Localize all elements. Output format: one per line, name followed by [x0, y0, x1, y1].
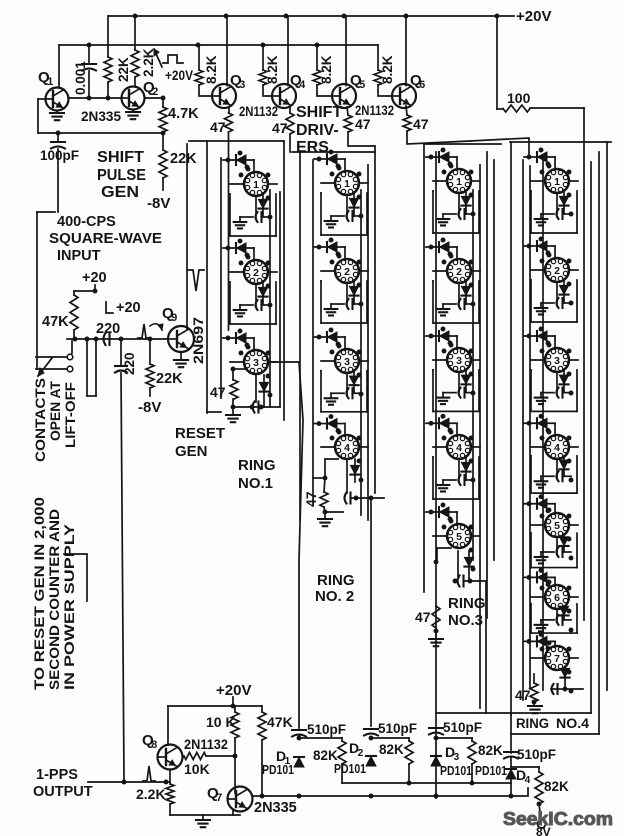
- svg-text:RESET: RESET: [175, 425, 225, 442]
- svg-text:7: 7: [554, 653, 560, 665]
- svg-text:PD101: PD101: [262, 763, 294, 777]
- svg-text:10 K: 10 K: [206, 714, 236, 730]
- svg-text:22K: 22K: [170, 151, 197, 167]
- svg-text:3: 3: [344, 356, 350, 368]
- svg-text:3: 3: [456, 355, 462, 367]
- svg-text:2N1132: 2N1132: [355, 103, 394, 118]
- svg-text:1: 1: [344, 178, 350, 190]
- svg-text:4: 4: [554, 442, 560, 454]
- svg-text:5: 5: [554, 520, 560, 532]
- svg-text:+20: +20: [116, 300, 141, 316]
- svg-text:2: 2: [456, 266, 462, 278]
- svg-text:47: 47: [210, 384, 226, 400]
- svg-text:2N1132: 2N1132: [184, 737, 228, 752]
- svg-text:47: 47: [272, 120, 288, 136]
- svg-text:82K: 82K: [313, 748, 338, 763]
- svg-text:NO. 2: NO. 2: [315, 588, 354, 605]
- svg-text:8: 8: [151, 739, 157, 751]
- svg-text:TO RESET GEN IN 2,000: TO RESET GEN IN 2,000: [31, 497, 47, 690]
- svg-text:3: 3: [253, 357, 259, 369]
- svg-text:1: 1: [554, 176, 560, 188]
- svg-text:INPUT: INPUT: [57, 248, 101, 264]
- svg-text:510pF: 510pF: [307, 722, 346, 737]
- svg-text:22K: 22K: [156, 371, 183, 387]
- svg-text:82K: 82K: [478, 743, 503, 758]
- svg-text:-8V: -8V: [147, 195, 170, 212]
- svg-text:4: 4: [344, 442, 350, 454]
- svg-text:GEN: GEN: [101, 184, 139, 201]
- svg-text:+20: +20: [82, 270, 107, 286]
- svg-text:220: 220: [96, 321, 120, 337]
- svg-text:3: 3: [554, 355, 560, 367]
- svg-text:82K: 82K: [379, 742, 404, 757]
- svg-text:5: 5: [456, 531, 462, 543]
- svg-text:10K: 10K: [184, 761, 210, 777]
- svg-text:1: 1: [253, 179, 259, 191]
- svg-text:400-CPS: 400-CPS: [57, 214, 116, 230]
- svg-text:NO.4: NO.4: [556, 716, 590, 731]
- svg-text:3: 3: [239, 79, 245, 91]
- svg-text:47: 47: [413, 116, 429, 132]
- svg-text:GEN: GEN: [175, 443, 208, 460]
- svg-text:510pF: 510pF: [517, 747, 556, 762]
- svg-text:6: 6: [419, 79, 425, 91]
- svg-text:4: 4: [456, 442, 462, 454]
- svg-text:9: 9: [171, 312, 177, 324]
- svg-text:PD101: PD101: [440, 764, 472, 778]
- svg-text:2: 2: [253, 267, 259, 279]
- svg-text:SQUARE-WAVE: SQUARE-WAVE: [49, 231, 162, 247]
- svg-text:2: 2: [152, 86, 158, 98]
- svg-text:1-PPS: 1-PPS: [36, 767, 78, 783]
- svg-text:510pF: 510pF: [378, 721, 417, 736]
- svg-text:SeekIC.com: SeekIC.com: [503, 808, 613, 829]
- svg-text:47: 47: [303, 491, 319, 507]
- svg-text:47: 47: [515, 687, 531, 703]
- svg-text:2N335: 2N335: [81, 108, 121, 124]
- svg-text:ERS: ERS: [296, 139, 329, 156]
- svg-text:2: 2: [344, 266, 350, 278]
- svg-text:NO.3: NO.3: [448, 612, 483, 629]
- svg-text:PULSE: PULSE: [97, 167, 146, 184]
- svg-text:PD101: PD101: [475, 764, 507, 778]
- svg-text:47K: 47K: [267, 714, 293, 730]
- svg-text:RING: RING: [516, 716, 549, 731]
- svg-text:2N1132: 2N1132: [239, 104, 278, 119]
- svg-text:-8V: -8V: [138, 399, 161, 416]
- svg-text:7: 7: [216, 792, 222, 804]
- svg-text:1: 1: [456, 176, 462, 188]
- svg-text:4: 4: [299, 79, 305, 91]
- svg-text:8.2K: 8.2K: [319, 55, 334, 84]
- svg-text:82K: 82K: [544, 779, 569, 794]
- svg-text:+20V: +20V: [165, 68, 193, 83]
- svg-text:6: 6: [554, 592, 560, 604]
- svg-text:0.001: 0.001: [73, 61, 88, 95]
- svg-text:2: 2: [554, 265, 560, 277]
- svg-text:47: 47: [210, 119, 226, 135]
- svg-text:47: 47: [355, 116, 371, 132]
- svg-text:CONTACTS: CONTACTS: [33, 378, 48, 462]
- svg-text:47: 47: [415, 609, 431, 625]
- svg-text:DRIV-: DRIV-: [296, 122, 339, 139]
- svg-text:8.2K: 8.2K: [265, 55, 280, 84]
- svg-text:100: 100: [507, 90, 531, 106]
- svg-text:3: 3: [454, 752, 460, 763]
- svg-text:OPEN AT: OPEN AT: [48, 380, 63, 441]
- svg-text:2N697: 2N697: [191, 317, 206, 364]
- svg-text:LIFT-OFF: LIFT-OFF: [63, 382, 78, 448]
- svg-text:2N335: 2N335: [254, 800, 297, 816]
- svg-text:8.2K: 8.2K: [380, 55, 395, 84]
- svg-text:8.2K: 8.2K: [204, 55, 219, 84]
- svg-text:2: 2: [358, 748, 364, 759]
- svg-text:RING: RING: [238, 457, 276, 474]
- svg-text:510pF: 510pF: [443, 720, 482, 735]
- svg-text:4.7K: 4.7K: [168, 106, 199, 122]
- svg-text:+20V: +20V: [516, 8, 551, 25]
- svg-text:RING: RING: [317, 572, 355, 589]
- svg-text:SHIFT: SHIFT: [97, 149, 144, 166]
- svg-text:NO.1: NO.1: [238, 475, 273, 492]
- svg-text:22K: 22K: [116, 57, 131, 82]
- svg-text:SECOND COUNTER AND: SECOND COUNTER AND: [46, 509, 62, 690]
- svg-text:100pF: 100pF: [40, 148, 79, 163]
- svg-text:220: 220: [122, 352, 137, 375]
- svg-text:47K: 47K: [42, 314, 69, 330]
- svg-text:2.2K: 2.2K: [136, 786, 166, 802]
- svg-text:RING: RING: [448, 595, 486, 612]
- svg-text:IN POWER SUPPLY: IN POWER SUPPLY: [61, 523, 77, 690]
- svg-text:PD101: PD101: [334, 762, 366, 776]
- svg-text:SHIFT: SHIFT: [296, 104, 342, 121]
- svg-text:OUTPUT: OUTPUT: [33, 784, 93, 800]
- svg-text:1: 1: [47, 76, 53, 88]
- svg-text:4: 4: [525, 775, 531, 786]
- svg-text:5: 5: [359, 79, 365, 91]
